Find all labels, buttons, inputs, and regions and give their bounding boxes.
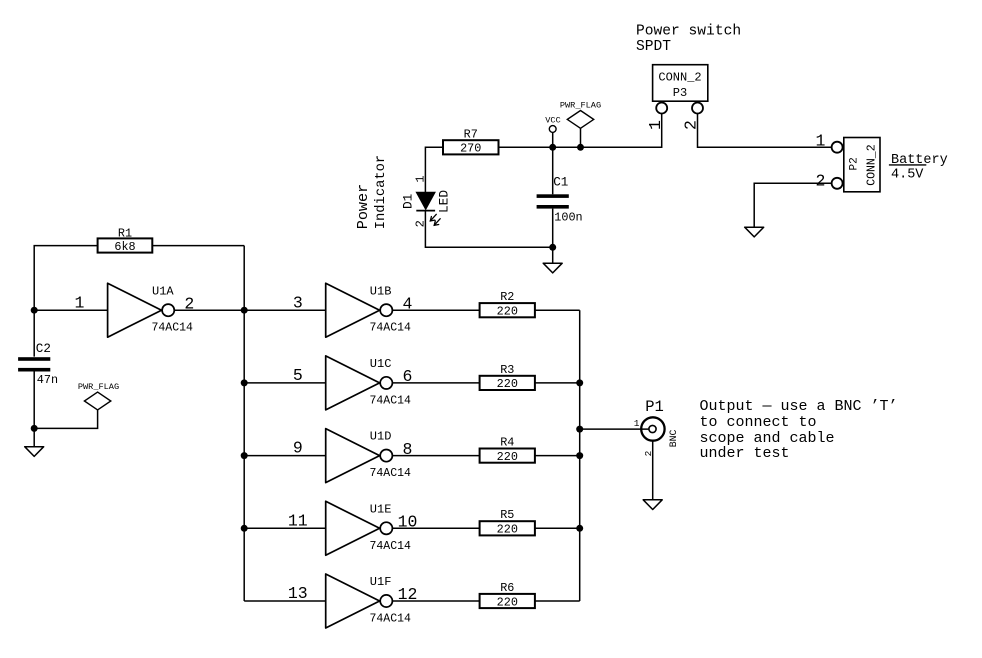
- inverter U1A: [75, 283, 195, 337]
- svg-text:R5: R5: [500, 508, 514, 522]
- wire: D1 cathode down, bottom wire to C1 foot: [425, 211, 552, 248]
- ground (battery return): [745, 227, 764, 237]
- wire: U1F input from left bus: [244, 600, 326, 602]
- wire: R6 right lead to right bus: [535, 600, 580, 602]
- svg-text:2: 2: [816, 172, 826, 191]
- svg-text:74AC14: 74AC14: [370, 540, 412, 553]
- text note: output description: [700, 398, 898, 462]
- svg-text:U1D: U1D: [370, 430, 392, 444]
- ground (under P1): [643, 500, 662, 510]
- svg-text:74AC14: 74AC14: [370, 467, 412, 480]
- wire: right bus vertical: [579, 310, 581, 601]
- connector P2 (battery): [816, 131, 880, 192]
- wire: U1E input from left bus: [244, 527, 326, 529]
- resistor R6: [480, 581, 535, 609]
- svg-text:C1: C1: [553, 175, 568, 189]
- svg-text:R2: R2: [500, 290, 514, 304]
- resistor R5: [480, 508, 535, 536]
- wire: R1 left lead down to input node: [34, 246, 97, 357]
- inverter U1C: [293, 356, 413, 410]
- resistor R1: [98, 227, 153, 254]
- svg-text:CONN_2: CONN_2: [658, 71, 701, 85]
- wire: U1A output to left bus: [174, 309, 244, 311]
- wire: U1C input from left bus: [244, 382, 326, 384]
- svg-text:R3: R3: [500, 363, 514, 377]
- svg-text:R7: R7: [464, 127, 478, 141]
- resistor R4: [480, 436, 535, 464]
- wire: C2 bottom lead to ground: [33, 372, 35, 447]
- wire: P3 pin2 down and right to battery pin1: [698, 113, 832, 147]
- wire: U1D output to R4: [392, 455, 479, 457]
- P3 pin 2 circle: [692, 103, 703, 114]
- wire: VCC stem: [552, 132, 554, 147]
- svg-text:220: 220: [497, 595, 518, 609]
- svg-text:11: 11: [288, 511, 308, 530]
- inverter U1B: [293, 283, 413, 337]
- wire: U1B output to R2: [392, 309, 479, 311]
- junction: VCC rail at PWR_FLAG: [577, 144, 584, 151]
- svg-text:R6: R6: [500, 581, 514, 595]
- svg-text:220: 220: [497, 523, 518, 537]
- wire: U1E output to R5: [392, 527, 479, 529]
- wire: U1A input: [34, 309, 107, 311]
- wire: C1 bottom lead to ground: [552, 209, 554, 264]
- svg-text:LED: LED: [436, 190, 451, 213]
- svg-text:4.5V: 4.5V: [891, 168, 924, 183]
- text note: Power switch SPDT: [636, 24, 741, 55]
- power flag PWR_FLAG (top): [560, 101, 601, 148]
- svg-text:P3: P3: [673, 86, 687, 100]
- junction: left bus row3: [241, 452, 248, 459]
- D1 emission arrows: [430, 214, 440, 225]
- P2 pin 2 circle: [832, 178, 843, 189]
- svg-text:BNC: BNC: [668, 430, 679, 448]
- junction: left bus row1: [241, 307, 248, 314]
- wire: U1B input from left bus: [244, 309, 326, 311]
- junction: right bus row2: [576, 379, 583, 386]
- svg-text:Indicator: Indicator: [373, 155, 389, 230]
- resistor R3: [480, 363, 535, 391]
- svg-text:100n: 100n: [554, 211, 582, 225]
- connector P1 (BNC): [580, 398, 679, 457]
- svg-text:3: 3: [293, 293, 303, 312]
- power flag PWR_FLAG (bottom): [34, 382, 119, 429]
- svg-text:74AC14: 74AC14: [370, 394, 412, 407]
- svg-text:to connect to: to connect to: [700, 414, 817, 431]
- wire: R2 right lead to right bus: [535, 309, 580, 311]
- svg-text:1: 1: [634, 418, 640, 429]
- wire: C1 top lead: [552, 147, 554, 194]
- svg-text:VCC: VCC: [545, 115, 560, 125]
- svg-text:74AC14: 74AC14: [152, 322, 194, 335]
- svg-text:PWR_FLAG: PWR_FLAG: [560, 101, 601, 111]
- ground (under C1): [543, 263, 562, 273]
- svg-text:Output — use a BNC ’T’: Output — use a BNC ’T’: [700, 398, 898, 415]
- LED D1: [401, 175, 452, 227]
- junction: right bus row4: [576, 525, 583, 532]
- svg-text:220: 220: [497, 377, 518, 391]
- P3 pin 1 circle: [656, 103, 667, 114]
- wire: PWR_FLAG stem: [580, 128, 582, 147]
- svg-text:47n: 47n: [37, 373, 58, 387]
- wire: R5 right lead to right bus: [535, 527, 580, 529]
- svg-text:R4: R4: [500, 436, 514, 450]
- wire: U1F output to R6: [392, 600, 479, 602]
- svg-text:U1F: U1F: [370, 575, 392, 589]
- wire: R4 right lead to right bus: [535, 455, 580, 457]
- resistor R7: [443, 127, 499, 155]
- power symbol VCC: [545, 115, 560, 147]
- svg-text:74AC14: 74AC14: [370, 613, 412, 626]
- junction: VCC rail at C1: [549, 144, 556, 151]
- svg-text:13: 13: [288, 584, 308, 603]
- svg-text:5: 5: [293, 366, 303, 385]
- svg-text:SPDT: SPDT: [636, 39, 671, 55]
- capacitor C1: [537, 175, 583, 224]
- svg-text:CONN_2: CONN_2: [865, 144, 878, 186]
- wire: P1 tap: [580, 428, 649, 430]
- wire: P1 ground stem: [652, 441, 654, 500]
- svg-text:D1: D1: [401, 193, 416, 209]
- text note: Battery 4.5V: [889, 153, 948, 183]
- svg-text:C2: C2: [36, 342, 51, 356]
- svg-text:U1A: U1A: [152, 285, 174, 299]
- svg-text:1: 1: [414, 175, 428, 182]
- junction: C2 foot: [31, 425, 38, 432]
- junction: left bus row2: [241, 379, 248, 386]
- svg-text:PWR_FLAG: PWR_FLAG: [78, 382, 119, 392]
- wire: battery pin2 to ground: [754, 183, 832, 227]
- text note: Power Indicator: [354, 155, 389, 230]
- wire: left bus vertical: [243, 246, 245, 601]
- wire: U1D input from left bus: [244, 455, 326, 457]
- wire: PWR_FLAG stem to ground net: [34, 410, 97, 429]
- svg-text:9: 9: [293, 439, 303, 458]
- junction: input node: [31, 307, 38, 314]
- svg-text:P1: P1: [645, 398, 664, 416]
- inverter U1D: [293, 429, 413, 483]
- wire: R1 right lead to left bus: [152, 245, 244, 247]
- P2 pin 1 circle: [832, 142, 843, 153]
- svg-text:U1E: U1E: [370, 502, 392, 516]
- junction: C1 foot / D1 return: [549, 244, 556, 251]
- svg-text:74AC14: 74AC14: [370, 322, 412, 335]
- svg-text:Battery: Battery: [891, 153, 948, 168]
- wire: R3 right lead to right bus: [535, 382, 580, 384]
- svg-text:270: 270: [460, 142, 481, 156]
- connector P3 (CONN_2): [646, 65, 708, 130]
- svg-text:P2: P2: [849, 157, 861, 170]
- svg-text:1: 1: [816, 131, 826, 150]
- wire: U1C output to R3: [392, 382, 479, 384]
- svg-text:Power switch: Power switch: [636, 24, 741, 40]
- junction: right bus row3: [576, 452, 583, 459]
- wire: R7 left lead to D1 branch: [425, 147, 443, 192]
- svg-text:under test: under test: [700, 445, 790, 462]
- ground (under C2): [25, 447, 44, 457]
- resistor R2: [480, 290, 535, 318]
- svg-text:U1B: U1B: [370, 284, 392, 298]
- svg-text:U1C: U1C: [370, 357, 392, 371]
- svg-text:6k8: 6k8: [114, 240, 135, 254]
- inverter U1E: [288, 501, 418, 555]
- svg-text:220: 220: [497, 305, 518, 319]
- junction: left bus row4: [241, 525, 248, 532]
- wire: P3 pin1 down and left to VCC rail: [499, 113, 662, 147]
- svg-text:220: 220: [497, 450, 518, 464]
- inverter U1F: [288, 574, 418, 628]
- capacitor C2: [18, 342, 58, 387]
- junction: right bus P1 tap: [576, 426, 583, 433]
- svg-text:Power: Power: [354, 184, 372, 230]
